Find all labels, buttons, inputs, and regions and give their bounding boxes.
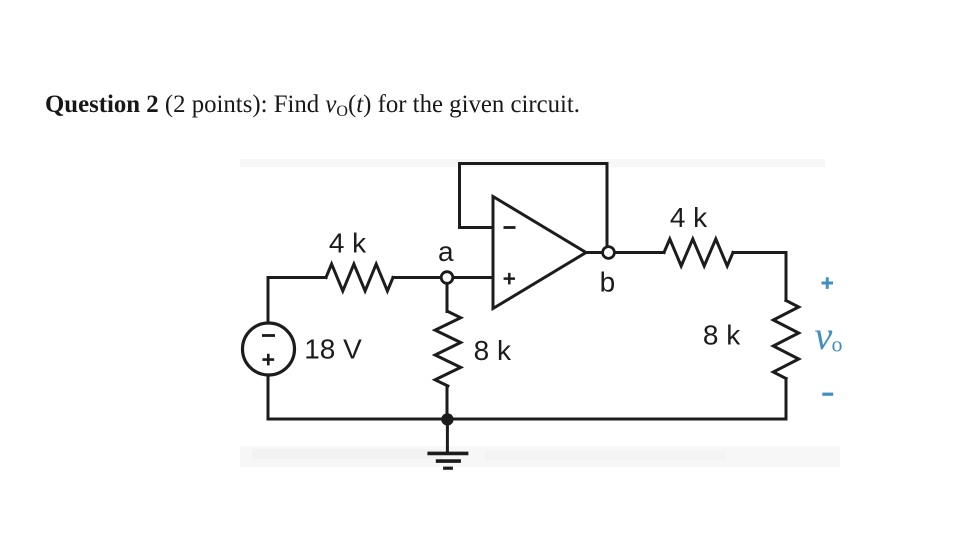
- wire: resistor R4 to bottom rail: [785, 379, 788, 420]
- wire: right vertical down to resistor R4: [785, 253, 788, 301]
- resistor 8 k (right vertical, R4): [773, 301, 798, 379]
- wire: bottom rail: [268, 418, 786, 421]
- wire: left vertical, top corner to source top: [267, 278, 270, 324]
- ground symbol: [427, 419, 468, 468]
- output polarity minus sign (blue): [822, 393, 833, 396]
- voltage source minus sign: [262, 334, 275, 337]
- svg-text:18 V: 18 V: [304, 333, 362, 364]
- svg-text:a: a: [438, 236, 454, 267]
- wire: op-amp output to resistor R3: [614, 251, 664, 254]
- svg-text:v: v: [815, 313, 833, 358]
- wire: op-amp apex to output node: [586, 251, 603, 254]
- svg-text:b: b: [600, 267, 616, 298]
- svg-text:8 k: 8 k: [474, 335, 512, 366]
- voltage source V1 18 V: [243, 323, 295, 375]
- wire: resistor R3 to right corner: [733, 251, 786, 254]
- wire: resistor R2 to bottom rail junction: [446, 386, 449, 419]
- svg-text:4 k: 4 k: [329, 228, 367, 259]
- faint scan artifact band lower: [240, 446, 840, 467]
- wire: top-left from source corner to resistor R1: [268, 276, 326, 279]
- wire: node a to op-amp + input: [453, 276, 493, 279]
- faint scan artifact band upper: [240, 159, 825, 167]
- wire: source bottom to bottom rail: [267, 375, 270, 419]
- wire: feedback loop from - input up and over to output: [460, 164, 608, 247]
- op-amp non-inverting input plus sign: [504, 273, 515, 285]
- resistor 4 k (left, R1): [326, 264, 393, 291]
- resistor 4 k (right, R3): [664, 239, 733, 266]
- wire: node a down to resistor R2: [446, 283, 449, 311]
- resistor 8 k (left vertical, R2): [435, 312, 461, 387]
- op-amp U1 triangle: [493, 197, 586, 309]
- node a open circle: [441, 272, 453, 284]
- node b output open circle: [603, 247, 615, 259]
- voltage source plus sign: [262, 354, 274, 366]
- svg-text:4 k: 4 k: [670, 202, 708, 233]
- junction dot on bottom rail: [441, 413, 453, 425]
- svg-text:8 k: 8 k: [703, 320, 741, 351]
- wire: resistor R1 to node a: [393, 276, 441, 279]
- output voltage label vo (blue): [815, 313, 843, 358]
- question title text: [45, 91, 580, 121]
- op-amp inverting input minus sign: [504, 226, 516, 229]
- svg-text:o: o: [832, 332, 843, 357]
- output polarity plus sign (blue): [822, 277, 834, 289]
